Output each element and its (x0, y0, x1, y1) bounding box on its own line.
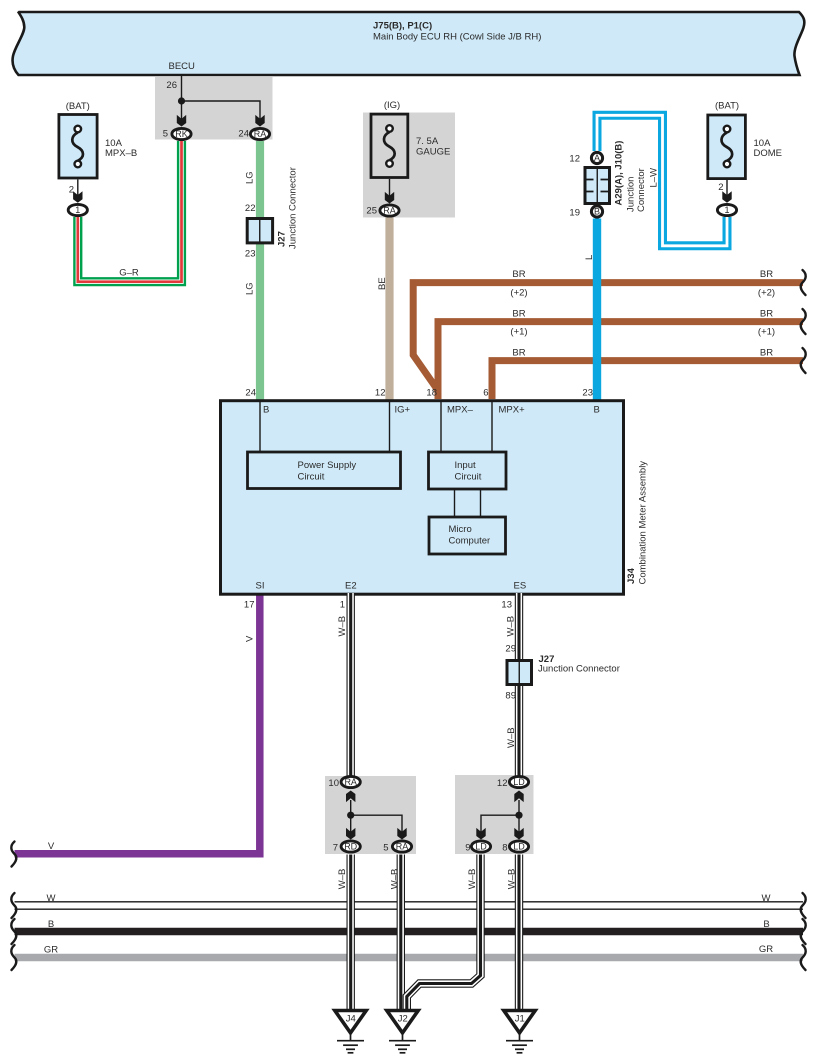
svg-text:IG+: IG+ (395, 405, 411, 416)
svg-text:89: 89 (505, 691, 516, 702)
svg-text:W–B: W–B (506, 616, 517, 637)
svg-text:BR: BR (512, 348, 525, 359)
svg-text:(+1): (+1) (510, 327, 527, 338)
svg-text:(+1): (+1) (758, 327, 775, 338)
svg-text:LD: LD (513, 842, 525, 852)
svg-text:J34: J34 (626, 567, 637, 584)
svg-text:GR: GR (44, 945, 58, 956)
svg-text:LG: LG (245, 282, 256, 295)
svg-text:13: 13 (501, 600, 512, 611)
svg-text:17: 17 (244, 600, 255, 611)
svg-text:23: 23 (582, 388, 593, 399)
svg-text:BR: BR (512, 269, 525, 280)
svg-text:Junction Connector: Junction Connector (538, 664, 620, 675)
svg-text:W–B: W–B (390, 869, 401, 890)
svg-text:SI: SI (256, 581, 265, 592)
svg-text:25: 25 (366, 206, 377, 217)
svg-text:7: 7 (333, 843, 338, 854)
svg-text:Junction: Junction (626, 177, 637, 212)
svg-text:A: A (594, 153, 600, 163)
svg-text:B: B (594, 207, 600, 217)
svg-text:GR: GR (759, 944, 773, 955)
svg-text:BECU: BECU (169, 61, 196, 72)
svg-text:L–W: L–W (649, 168, 660, 188)
svg-text:12: 12 (375, 388, 386, 399)
svg-text:BR: BR (512, 309, 525, 320)
svg-text:GAUGE: GAUGE (416, 147, 450, 158)
svg-text:BR: BR (760, 269, 773, 280)
svg-text:V: V (48, 841, 55, 852)
svg-text:2: 2 (69, 185, 74, 196)
svg-text:Connector: Connector (636, 168, 647, 212)
svg-text:(IG): (IG) (384, 100, 400, 111)
svg-text:Circuit: Circuit (455, 472, 482, 483)
svg-text:Computer: Computer (449, 536, 491, 547)
svg-text:22: 22 (245, 203, 256, 214)
svg-text:W–B: W–B (337, 869, 348, 890)
svg-text:12: 12 (497, 778, 508, 789)
svg-text:B: B (594, 405, 600, 416)
svg-text:E2: E2 (345, 581, 357, 592)
svg-text:W–B: W–B (507, 869, 518, 890)
svg-text:MPX–B: MPX–B (105, 148, 137, 159)
svg-text:26: 26 (166, 80, 177, 91)
svg-text:8: 8 (502, 843, 507, 854)
svg-text:5: 5 (163, 129, 168, 140)
svg-text:10: 10 (328, 778, 339, 789)
svg-text:18: 18 (426, 388, 437, 399)
svg-text:W–B: W–B (467, 869, 478, 890)
svg-text:J2: J2 (398, 1014, 408, 1025)
svg-text:Main Body ECU RH (Cowl Side J/: Main Body ECU RH (Cowl Side J/B RH) (373, 32, 541, 43)
svg-text:(BAT): (BAT) (66, 101, 90, 112)
svg-text:BE: BE (377, 277, 388, 290)
svg-text:W–B: W–B (506, 727, 517, 748)
svg-text:RA: RA (396, 842, 409, 852)
svg-text:MPX–: MPX– (447, 405, 474, 416)
svg-text:BR: BR (760, 309, 773, 320)
svg-text:RD: RD (344, 842, 357, 852)
svg-text:MPX+: MPX+ (499, 405, 526, 416)
svg-text:W: W (47, 893, 56, 904)
svg-text:W: W (762, 893, 771, 904)
svg-text:J1: J1 (515, 1014, 525, 1025)
svg-text:Micro: Micro (449, 524, 472, 535)
svg-text:Power Supply: Power Supply (298, 460, 357, 471)
svg-text:RA: RA (383, 206, 396, 216)
svg-text:Circuit: Circuit (298, 472, 325, 483)
svg-text:B: B (48, 919, 54, 930)
svg-text:DOME: DOME (754, 148, 783, 159)
svg-text:V: V (245, 635, 256, 642)
svg-text:19: 19 (569, 208, 580, 219)
svg-text:12: 12 (569, 154, 580, 165)
svg-text:Input: Input (455, 460, 476, 471)
svg-text:J4: J4 (346, 1014, 356, 1025)
svg-text:LD: LD (513, 777, 525, 787)
svg-text:6: 6 (483, 388, 488, 399)
svg-text:1: 1 (340, 600, 345, 611)
svg-text:J27: J27 (277, 231, 288, 247)
svg-text:Junction Connector: Junction Connector (288, 167, 299, 249)
svg-text:(+2): (+2) (510, 288, 527, 299)
svg-text:RA: RA (344, 777, 357, 787)
svg-text:B: B (263, 405, 269, 416)
svg-text:1: 1 (724, 205, 729, 215)
svg-text:BR: BR (760, 348, 773, 359)
svg-text:23: 23 (245, 249, 256, 260)
svg-text:29: 29 (505, 644, 516, 655)
svg-text:5: 5 (383, 843, 388, 854)
svg-text:A29(A), J10(B): A29(A), J10(B) (614, 141, 625, 206)
svg-text:B: B (763, 919, 769, 930)
svg-text:G–R: G–R (119, 268, 139, 279)
svg-text:J75(B), P1(C): J75(B), P1(C) (373, 21, 432, 32)
svg-text:RK: RK (175, 129, 188, 139)
svg-text:W–B: W–B (337, 616, 348, 637)
svg-text:Combination Meter Assembly: Combination Meter Assembly (638, 461, 649, 585)
svg-text:ES: ES (514, 581, 527, 592)
svg-text:2: 2 (718, 182, 723, 193)
svg-text:24: 24 (245, 388, 256, 399)
svg-text:L: L (584, 255, 595, 260)
svg-text:LD: LD (475, 842, 487, 852)
svg-text:(+2): (+2) (758, 288, 775, 299)
svg-text:24: 24 (238, 129, 249, 140)
svg-text:RA: RA (254, 129, 267, 139)
svg-text:1: 1 (75, 205, 80, 215)
svg-text:7. 5A: 7. 5A (416, 136, 439, 147)
svg-text:9: 9 (465, 843, 470, 854)
svg-text:(BAT): (BAT) (715, 101, 739, 112)
svg-text:LG: LG (245, 171, 256, 184)
